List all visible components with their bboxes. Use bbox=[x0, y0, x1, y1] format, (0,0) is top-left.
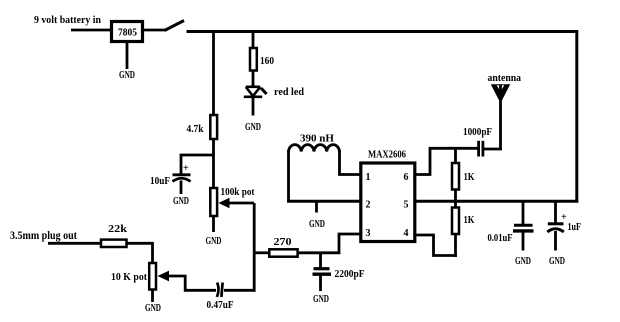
capacitor C5 0.01uF bbox=[488, 225, 534, 244]
svg-text:160: 160 bbox=[260, 56, 274, 67]
resistor R1 4.7k bbox=[187, 115, 218, 139]
resistor R4 270 bbox=[269, 237, 297, 257]
svg-text:GND: GND bbox=[245, 122, 261, 133]
svg-text:GND: GND bbox=[119, 70, 135, 81]
svg-text:4: 4 bbox=[404, 228, 409, 239]
svg-text:10 K pot: 10 K pot bbox=[111, 272, 148, 283]
wire 100k pot to ground bbox=[212, 216, 215, 232]
wire LED to ground bbox=[252, 98, 255, 116]
resistor R5 1K upper bbox=[452, 148, 475, 201]
wire junction to 270 bbox=[254, 251, 270, 254]
inductor L1 390nH bbox=[289, 145, 340, 152]
wire pin5 rail bbox=[415, 200, 579, 203]
wire 10uF to ground bbox=[180, 181, 183, 195]
wire main vertical lower bbox=[212, 139, 215, 189]
wire 270 to pin3 bbox=[298, 234, 362, 253]
diode D1 red led bbox=[244, 87, 267, 97]
svg-text:9 volt battery in: 9 volt battery in bbox=[34, 14, 101, 26]
svg-text:GND: GND bbox=[173, 196, 189, 207]
svg-text:red led: red led bbox=[274, 86, 304, 98]
svg-text:3: 3 bbox=[366, 228, 371, 239]
svg-text:2: 2 bbox=[366, 200, 371, 211]
svg-text:GND: GND bbox=[313, 294, 329, 305]
svg-text:270: 270 bbox=[274, 237, 292, 248]
svg-text:GND: GND bbox=[145, 303, 161, 314]
capacitor C6 1uF bbox=[547, 212, 581, 233]
svg-text:3.5mm plug out: 3.5mm plug out bbox=[10, 230, 77, 242]
resistor R6 1K lower bbox=[452, 201, 475, 257]
wire 2200pF stub bbox=[319, 253, 322, 268]
wire pin2 bbox=[287, 200, 361, 203]
op-amp U1 MAX2606 bbox=[361, 150, 415, 242]
svg-text:7805: 7805 bbox=[118, 28, 137, 39]
svg-text:0.47uF: 0.47uF bbox=[207, 300, 234, 311]
wire 0.01uF stub bbox=[522, 201, 525, 224]
svg-text:GND: GND bbox=[206, 236, 222, 247]
wire 2200pF to ground bbox=[319, 276, 322, 292]
wire inductor left leg bbox=[287, 150, 290, 203]
svg-text:+: + bbox=[183, 163, 189, 174]
potentiometer VR1 100k pot bbox=[210, 187, 255, 216]
wire right rail bbox=[575, 30, 578, 203]
resistor R3 160 bbox=[250, 48, 274, 71]
svg-text:MAX2606: MAX2606 bbox=[368, 150, 406, 161]
resistor R2 22k bbox=[101, 224, 128, 247]
wire switch left bbox=[143, 29, 165, 32]
svg-text:1000pF: 1000pF bbox=[463, 127, 492, 138]
svg-text:+: + bbox=[561, 212, 567, 223]
svg-text:10uF: 10uF bbox=[150, 176, 170, 187]
svg-text:1: 1 bbox=[366, 172, 371, 183]
capacitor C4 1000pF bbox=[463, 127, 492, 157]
capacitor C2 0.47uF bbox=[207, 283, 234, 312]
svg-text:22k: 22k bbox=[108, 224, 128, 235]
wire inductor right leg to pin1 bbox=[340, 150, 362, 175]
svg-text:GND: GND bbox=[549, 256, 565, 267]
wire 1uF to ground bbox=[554, 231, 557, 251]
wire 1uF stub bbox=[554, 201, 557, 222]
capacitor C1 10uF bbox=[150, 163, 191, 187]
wire LED branch top bbox=[252, 30, 255, 49]
wire battery input bbox=[71, 29, 112, 32]
svg-text:0.01uF: 0.01uF bbox=[488, 233, 513, 244]
wire 1000pF to antenna bbox=[484, 148, 502, 151]
regulator U2 7805 bbox=[112, 22, 143, 42]
wire junction vertical bbox=[253, 203, 256, 292]
wire top rail bbox=[187, 30, 579, 33]
wire wiper to 0.47uF bbox=[185, 276, 216, 290]
wire plug to 22k bbox=[48, 242, 102, 245]
wire 22k to 10K pot bbox=[127, 243, 153, 264]
svg-text:antenna: antenna bbox=[488, 72, 522, 84]
wire main vertical upper bbox=[212, 30, 215, 116]
wire 160 to LED bbox=[252, 71, 255, 87]
svg-text:1uF: 1uF bbox=[568, 222, 582, 233]
wire pin4 loop bbox=[415, 235, 457, 256]
wire 0.01uF to ground bbox=[522, 232, 525, 251]
svg-text:6: 6 bbox=[404, 172, 409, 183]
capacitor C3 2200pF bbox=[313, 269, 365, 280]
svg-text:1K: 1K bbox=[464, 172, 475, 183]
svg-text:100k pot: 100k pot bbox=[221, 187, 256, 198]
svg-text:1K: 1K bbox=[464, 215, 475, 226]
wire 10uF branch bbox=[181, 155, 214, 174]
svg-text:GND: GND bbox=[515, 256, 531, 267]
wire 10K pot to ground bbox=[151, 290, 154, 303]
svg-text:GND: GND bbox=[309, 219, 325, 230]
svg-text:2200pF: 2200pF bbox=[335, 269, 365, 280]
wire 0.47uF to junction bbox=[224, 289, 256, 292]
wire pin2 ground stub bbox=[315, 201, 318, 212]
svg-text:4.7k: 4.7k bbox=[187, 124, 204, 135]
wire 7805 ground stub bbox=[126, 42, 129, 70]
antenna ANT1 bbox=[488, 72, 522, 149]
wire pin6 to top bbox=[415, 148, 478, 174]
svg-text:390 nH: 390 nH bbox=[300, 134, 334, 145]
switch SW1 bbox=[165, 21, 185, 31]
potentiometer VR2 10 K pot bbox=[111, 263, 187, 290]
svg-text:5: 5 bbox=[404, 200, 409, 211]
